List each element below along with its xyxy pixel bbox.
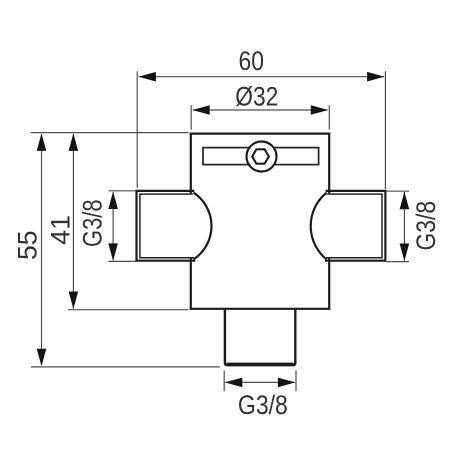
dim 41 line <box>72 134 74 309</box>
dim 60 line <box>139 76 384 78</box>
dim 60 arrows <box>138 72 384 82</box>
left port arc <box>194 193 212 260</box>
dim 41 extension line <box>68 309 189 311</box>
svg-text:41: 41 <box>46 215 76 245</box>
dim 32 arrows <box>192 105 328 115</box>
dim G3/8 left line <box>112 192 114 260</box>
dim 41 arrows <box>69 133 79 309</box>
svg-text:60: 60 <box>239 46 265 76</box>
dim G3/8 right line <box>403 192 405 261</box>
screw circle <box>247 142 277 172</box>
dim G3/8 bottom line <box>225 381 295 383</box>
spindle slot <box>203 148 319 165</box>
valve body outline <box>191 134 329 309</box>
dim 55 arrows <box>37 133 47 366</box>
dim 32 line <box>193 109 328 111</box>
bottom port thread line <box>227 362 294 364</box>
svg-text:55: 55 <box>13 230 43 260</box>
dim 32 extension lines <box>191 105 329 129</box>
left port outer <box>137 191 195 261</box>
dim 55 extension lines <box>30 133 220 367</box>
hex socket <box>252 149 269 163</box>
dim G3/8 right arrows <box>400 192 410 261</box>
right port outer <box>326 191 385 261</box>
svg-text:G3/8: G3/8 <box>77 199 107 247</box>
dim G3/8 bottom extension lines <box>224 370 296 391</box>
dim G3/8 left extension lines <box>108 191 136 262</box>
svg-text:G3/8: G3/8 <box>238 390 288 420</box>
dim G3/8 left arrows <box>108 192 118 261</box>
dim 60 extension lines <box>137 71 385 189</box>
right port arc <box>311 193 327 260</box>
svg-text:Ø32: Ø32 <box>235 81 278 111</box>
bottom port <box>225 309 295 365</box>
svg-text:G3/8: G3/8 <box>411 201 441 251</box>
dim 55 line <box>41 134 43 365</box>
dim G3/8 bottom arrows <box>225 378 296 388</box>
right port chamfer line <box>326 194 382 258</box>
left port chamfer line <box>140 194 194 258</box>
dim G3/8 right extension lines <box>386 191 409 261</box>
